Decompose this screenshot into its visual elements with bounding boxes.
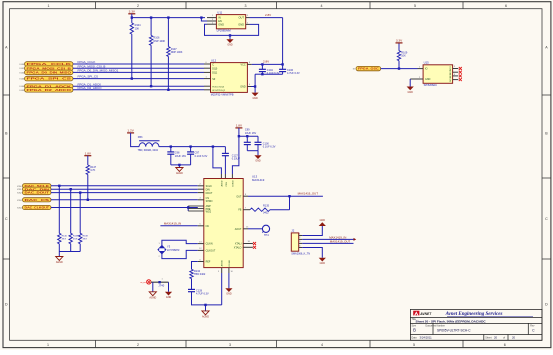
wire EN tie to IN xyxy=(200,16,202,18)
junction R106/FPGA_D1_ADCK xyxy=(150,85,152,87)
svg-text:AVNET: AVNET xyxy=(419,312,432,316)
pin 18 XTALI no-connect xyxy=(243,243,253,245)
pin 1 xyxy=(204,63,211,65)
svg-text:0.1UF 6.3V: 0.1UF 6.3V xyxy=(195,155,208,158)
wire xyxy=(168,282,170,292)
pin xyxy=(198,185,204,187)
capacitor C100 xyxy=(257,136,259,142)
capacitor C106 xyxy=(281,63,283,65)
svg-text:GND: GND xyxy=(255,160,261,163)
svg-text:GND: GND xyxy=(252,97,258,100)
pin 4 xyxy=(204,78,211,80)
svg-text:TBD 0402: TBD 0402 xyxy=(194,273,206,276)
svg-text:HOLD#/DQ3: HOLD#/DQ3 xyxy=(212,86,225,88)
svg-text:5: 5 xyxy=(414,4,416,8)
svg-text:5: 5 xyxy=(413,343,415,347)
resistor R109 xyxy=(397,51,400,61)
pin 5 OUT xyxy=(246,17,250,19)
crystal Y3 xyxy=(158,245,166,254)
svg-text:of: of xyxy=(503,336,505,339)
svg-text:LP2985AIM: LP2985AIM xyxy=(217,29,232,33)
wire 1.8V down xyxy=(232,128,239,174)
svg-text:NCO: NCO xyxy=(450,77,452,82)
svg-text:DGND: DGND xyxy=(229,260,231,267)
svg-text:CML: CML xyxy=(226,181,228,186)
svg-text:U12: U12 xyxy=(211,58,217,62)
svg-text:SIT8208AC: SIT8208AC xyxy=(424,83,438,87)
svg-text:DVDD: DVDD xyxy=(232,180,234,187)
svg-text:W#/VPP/DQ2: W#/VPP/DQ2 xyxy=(212,90,226,92)
svg-text:GND: GND xyxy=(425,78,431,81)
svg-text:FPGA_D0_DIN_MISO: FPGA_D0_DIN_MISO xyxy=(27,71,73,75)
resistor R138 xyxy=(79,233,82,244)
pin 2 xyxy=(299,238,303,240)
svg-text:0402: 0402 xyxy=(263,212,269,215)
wire xyxy=(409,79,411,87)
SMA connector J2 xyxy=(291,233,298,251)
capacitor C104 xyxy=(261,64,263,69)
wire 2.8V to flash VCC xyxy=(252,63,283,65)
wire xyxy=(167,57,169,90)
svg-text:1: 1 xyxy=(47,343,49,347)
svg-text:6: 6 xyxy=(504,343,506,347)
wire xyxy=(73,85,204,87)
wire xyxy=(131,34,133,79)
svg-text:10K: 10K xyxy=(135,28,140,31)
svg-text:AGND: AGND xyxy=(149,296,156,299)
capacitor C98 xyxy=(170,147,172,152)
svg-text:GND: GND xyxy=(240,86,246,89)
svg-text:MAX1419_OUT: MAX1419_OUT xyxy=(298,191,319,195)
svg-text:J2: J2 xyxy=(291,229,294,233)
pin xyxy=(198,192,204,194)
capacitor C127 xyxy=(224,147,226,154)
svg-text:OUT: OUT xyxy=(239,16,245,20)
pin 4 xyxy=(299,247,303,249)
wire xyxy=(289,196,291,210)
svg-text:FPGA_D2_ADCO: FPGA_D2_ADCO xyxy=(78,86,103,90)
svg-text:10K: 10K xyxy=(401,55,406,58)
svg-text:JT40: JT40 xyxy=(158,284,164,288)
svg-text:FB: FB xyxy=(238,209,241,212)
wire xyxy=(381,68,418,70)
wire MAX1419_OUT xyxy=(302,242,353,244)
svg-text:C: C xyxy=(212,63,214,66)
svg-text:GND: GND xyxy=(218,23,224,27)
wire xyxy=(150,18,152,36)
junction R107/FPGA_D2_ADCO xyxy=(167,89,169,91)
svg-text:M25P32-VMN6TPB: M25P32-VMN6TPB xyxy=(211,92,234,96)
power port 3.3V xyxy=(396,42,403,44)
inductor FB3 xyxy=(139,143,159,147)
pin xyxy=(198,199,204,201)
pin 19 XTALO no-connect xyxy=(243,246,253,248)
wire MAX1419_OUT xyxy=(248,195,323,197)
wire xyxy=(51,207,198,209)
wire AGND rail xyxy=(59,251,80,253)
svg-text:Sheet 20 - SPI Flash, 50Mx (EE: Sheet 20 - SPI Flash, 50Mx (EEPROM, DAC/… xyxy=(416,319,487,323)
wire xyxy=(73,63,204,65)
svg-text:20: 20 xyxy=(512,335,516,339)
svg-text:DAC_CLKOUT: DAC_CLKOUT xyxy=(25,207,50,210)
wire xyxy=(131,14,133,23)
svg-text:1: 1 xyxy=(48,4,50,8)
pin 6 xyxy=(204,89,211,91)
svg-text:OUT: OUT xyxy=(236,195,242,198)
svg-text:U11: U11 xyxy=(217,10,222,14)
capacitor C97 xyxy=(190,147,192,152)
svg-text:DAC_CS: DAC_CS xyxy=(25,199,50,202)
wire xyxy=(191,279,193,290)
wire xyxy=(162,250,198,258)
svg-text:4: 4 xyxy=(321,4,323,8)
wire xyxy=(302,248,322,258)
wire xyxy=(398,61,400,69)
resistor R106 xyxy=(149,35,152,45)
wire xyxy=(192,262,198,270)
svg-text:SP605V-ULTRT-SCH-C: SP605V-ULTRT-SCH-C xyxy=(437,328,471,332)
svg-text:B: B xyxy=(413,328,416,333)
svg-text:2.8V: 2.8V xyxy=(265,13,271,17)
pin 5 NC xyxy=(198,225,204,227)
wire xyxy=(247,150,258,152)
SPI flash U12 xyxy=(211,63,248,93)
svg-text:MAX1419_OUT: MAX1419_OUT xyxy=(330,239,351,243)
svg-text:AGND: AGND xyxy=(176,172,183,175)
pin xyxy=(198,188,204,190)
svg-text:4: 4 xyxy=(321,343,323,347)
svg-text:C: C xyxy=(545,217,548,221)
svg-text:20: 20 xyxy=(494,335,498,339)
pin 2 xyxy=(204,67,211,69)
wire 2.8V output xyxy=(250,17,283,19)
ground AGND xyxy=(149,292,156,296)
resistor R104 xyxy=(130,23,133,34)
svg-text:TBD, 600MA, 0402: TBD, 600MA, 0402 xyxy=(138,149,159,152)
svg-text:Document Number: Document Number xyxy=(426,324,446,327)
resistor R139 xyxy=(69,233,72,244)
svg-text:IO: IO xyxy=(425,68,428,71)
svg-text:SMA2066_K_TN: SMA2066_K_TN xyxy=(291,252,310,255)
ground AGND xyxy=(204,304,206,306)
svg-text:3: 3 xyxy=(245,4,247,8)
ground GND xyxy=(225,288,232,292)
svg-text:TP4: TP4 xyxy=(264,234,269,237)
svg-text:no_erc: no_erc xyxy=(140,281,146,284)
junction DAC_CS xyxy=(87,199,89,201)
wire xyxy=(73,71,204,73)
ground GND xyxy=(165,292,172,296)
svg-text:DQ1: DQ1 xyxy=(212,72,218,75)
no-ERC marker xyxy=(147,280,151,284)
svg-text:FPGA_D0_DIN_MISO_MISO1: FPGA_D0_DIN_MISO_MISO1 xyxy=(78,69,119,73)
svg-text:1.8V: 1.8V xyxy=(236,124,243,128)
title block xyxy=(410,309,542,340)
pin AVDD xyxy=(220,174,222,179)
junction R104/FPGA_SPI_CS xyxy=(131,77,133,79)
svg-text:3.3V: 3.3V xyxy=(396,39,403,43)
pin 8 VCC xyxy=(247,63,251,65)
svg-text:SHDN: SHDN xyxy=(206,200,213,203)
net tie JT40 xyxy=(151,281,169,283)
resistor R134 xyxy=(190,269,193,278)
resistor R140 xyxy=(58,233,61,244)
wire cap ground link xyxy=(262,73,282,75)
pin 6 REF xyxy=(198,261,204,263)
wire xyxy=(167,18,169,47)
wire xyxy=(251,86,255,88)
svg-text:R140: R140 xyxy=(62,235,68,237)
svg-text:2.8V: 2.8V xyxy=(263,60,269,64)
svg-text:10UF 16V: 10UF 16V xyxy=(245,132,257,135)
svg-text:D: D xyxy=(545,302,548,306)
svg-text:GND: GND xyxy=(166,296,172,299)
pin 8 OUT xyxy=(243,195,248,197)
svg-text:IN: IN xyxy=(218,16,221,20)
wire xyxy=(79,193,81,234)
svg-text:CLKOUT: CLKOUT xyxy=(206,249,216,252)
pin 13 CLKIN xyxy=(198,243,204,245)
ground AGND xyxy=(178,165,180,168)
wire xyxy=(79,244,81,252)
capacitor C99 xyxy=(246,136,248,142)
wire xyxy=(87,156,89,165)
voltage regulator U11 xyxy=(216,15,245,29)
pin 4 GND xyxy=(247,86,251,88)
node R107 top xyxy=(167,16,169,18)
wire xyxy=(248,228,262,230)
ground GND down xyxy=(319,258,326,262)
svg-text:3/24/2011: 3/24/2011 xyxy=(420,335,433,339)
svg-text:DQ0: DQ0 xyxy=(212,67,218,70)
svg-text:FPGA_OSC: FPGA_OSC xyxy=(358,67,379,71)
pin 3 EN xyxy=(207,20,216,22)
power port 1.8V xyxy=(84,155,91,157)
pins AMP/PRE/WO2 tied xyxy=(187,206,189,208)
wire xyxy=(152,282,154,292)
wire xyxy=(70,244,72,252)
svg-text:CLKIN: CLKIN xyxy=(206,243,213,246)
svg-text:GND: GND xyxy=(320,262,326,265)
wire xyxy=(70,189,72,233)
junction R138 xyxy=(79,191,81,193)
svg-text:EN: EN xyxy=(218,19,222,23)
svg-text:IO: IO xyxy=(353,69,356,71)
pin 4 GND xyxy=(246,23,250,25)
pin CML xyxy=(224,174,226,179)
svg-text:0.1UF 6.3V: 0.1UF 6.3V xyxy=(263,146,276,149)
wire xyxy=(73,89,204,91)
wire xyxy=(73,67,204,69)
svg-text:REF: REF xyxy=(206,261,211,264)
svg-text:10UF 16V: 10UF 16V xyxy=(175,155,187,158)
svg-text:GND: GND xyxy=(238,23,244,27)
ground GND flash xyxy=(254,87,256,93)
junction C98 xyxy=(170,145,172,147)
wire xyxy=(51,185,198,187)
svg-text:Sheet: Sheet xyxy=(485,336,492,339)
resistor R135 xyxy=(250,208,270,211)
capacitor C128 xyxy=(188,288,195,290)
wire xyxy=(58,186,60,234)
svg-text:AGND: AGND xyxy=(56,261,63,264)
Avnet logo xyxy=(413,311,419,316)
pin 15 AOUT xyxy=(243,228,248,230)
wire xyxy=(239,135,258,137)
junction R139 xyxy=(70,188,72,190)
power port 1.2V xyxy=(127,132,134,134)
wire xyxy=(302,226,322,236)
svg-text:AGND: AGND xyxy=(221,260,224,267)
svg-text:R135: R135 xyxy=(263,205,270,208)
svg-text:WO2: WO2 xyxy=(206,210,212,213)
svg-text:DNP 100K: DNP 100K xyxy=(153,40,165,43)
node R106 top xyxy=(150,16,152,18)
svg-text:C: C xyxy=(5,217,8,221)
ground GND up xyxy=(319,222,326,226)
svg-text:4.7K: 4.7K xyxy=(90,169,95,172)
svg-text:FPGA_SPI_CS: FPGA_SPI_CS xyxy=(78,75,99,79)
svg-text:GND: GND xyxy=(320,219,326,222)
svg-text:DAC_DOUT: DAC_DOUT xyxy=(25,192,50,195)
svg-text:GND: GND xyxy=(227,44,233,47)
wire xyxy=(228,273,230,288)
wire xyxy=(73,78,204,80)
wire xyxy=(192,292,222,305)
svg-text:FB3: FB3 xyxy=(138,136,143,139)
pin DVDD xyxy=(231,174,233,179)
svg-text:R138: R138 xyxy=(83,235,89,237)
wire xyxy=(87,175,89,200)
svg-text:3.3V: 3.3V xyxy=(129,10,136,14)
svg-text:2: 2 xyxy=(137,343,139,347)
svg-text:22.579MHZ: 22.579MHZ xyxy=(167,249,180,252)
svg-text:GND: GND xyxy=(226,293,232,296)
pin 12 CLKOUT xyxy=(198,249,204,251)
ground AGND xyxy=(58,252,60,257)
pin 7 FB xyxy=(243,209,250,211)
svg-text:DNP 100K: DNP 100K xyxy=(171,51,183,54)
pin 1 xyxy=(299,235,303,237)
pin DGND xyxy=(228,268,230,273)
wire AVDD line xyxy=(159,146,226,148)
wire GND loop xyxy=(205,24,259,35)
ground GND of U11 xyxy=(229,35,231,39)
resistor R107 xyxy=(167,47,170,57)
pin AGND xyxy=(221,268,223,273)
ground GND xyxy=(407,87,414,91)
svg-text:1.2V: 1.2V xyxy=(127,129,134,133)
svg-text:1.8V: 1.8V xyxy=(85,151,92,155)
svg-text:MAX1419: MAX1419 xyxy=(252,178,265,182)
svg-text:XTALI: XTALI xyxy=(235,243,242,246)
svg-text:3: 3 xyxy=(229,343,231,347)
svg-text:NC: NC xyxy=(206,225,210,228)
svg-text:D: D xyxy=(5,302,8,306)
svg-text:AOUT: AOUT xyxy=(235,228,242,231)
junction C97 xyxy=(189,145,191,147)
svg-text:6: 6 xyxy=(505,4,507,8)
pin 2 GND xyxy=(207,23,216,25)
wire xyxy=(51,192,198,194)
wire xyxy=(162,240,198,245)
pin 3 xyxy=(204,71,211,73)
svg-text:FPGA_D2_ADCO: FPGA_D2_ADCO xyxy=(27,88,73,92)
svg-text:MAX1419_IN: MAX1419_IN xyxy=(164,222,181,226)
svg-text:GND: GND xyxy=(408,91,414,94)
oscillator U15 xyxy=(423,65,453,84)
no-connect pins xyxy=(453,68,459,70)
wire 3.3V rail xyxy=(132,17,205,19)
svg-text:FPGA_SPI_CS: FPGA_SPI_CS xyxy=(27,77,72,81)
wire 2.8V down to flash xyxy=(282,18,284,65)
DAC U13 xyxy=(204,179,243,268)
svg-text:4.7UF 6.3V: 4.7UF 6.3V xyxy=(287,72,300,75)
svg-text:2: 2 xyxy=(137,4,139,8)
wire AVDD to pin xyxy=(212,145,214,147)
junction R109 xyxy=(398,67,400,69)
wire xyxy=(398,43,400,51)
junction xyxy=(288,195,290,197)
power port 3.3V xyxy=(128,13,135,15)
svg-text:DOUT: DOUT xyxy=(206,192,213,195)
power port 1.8V DVDD xyxy=(235,127,242,129)
wire xyxy=(131,133,140,147)
junction xyxy=(261,63,263,65)
wire xyxy=(150,45,152,86)
junction 1.8V caps xyxy=(238,135,240,137)
svg-text:Y3: Y3 xyxy=(167,245,171,249)
svg-text:XTALO: XTALO xyxy=(234,246,242,249)
svg-text:AGND: AGND xyxy=(202,316,209,319)
svg-text:VCC: VCC xyxy=(241,64,246,67)
wire xyxy=(51,199,198,201)
wire MAX1419_IN xyxy=(302,238,353,240)
svg-text:AVDD: AVDD xyxy=(220,180,223,186)
svg-text:4.7UF 6.3V: 4.7UF 6.3V xyxy=(196,293,209,296)
svg-text:U15: U15 xyxy=(424,61,430,65)
pin 1 IN xyxy=(207,17,216,19)
testpoint TP4 xyxy=(262,225,269,232)
wire xyxy=(51,188,198,190)
pin 5 xyxy=(204,85,211,87)
ground GND xyxy=(257,151,259,156)
wire xyxy=(221,273,223,305)
junction R140 xyxy=(58,185,60,187)
svg-text:Date:: Date: xyxy=(412,336,418,339)
pin 1 IO xyxy=(418,68,424,70)
wire xyxy=(160,225,197,227)
resistor R147 xyxy=(86,165,89,175)
wire xyxy=(58,244,60,252)
pin 2 GND xyxy=(410,78,423,80)
pin 3 xyxy=(299,242,303,244)
wire xyxy=(171,164,191,166)
